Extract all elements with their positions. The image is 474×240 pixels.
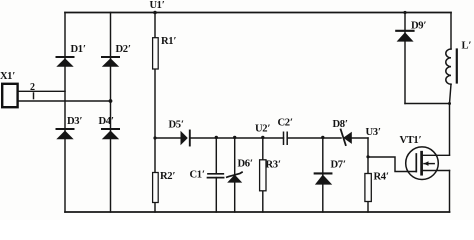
svg-text:R1 ′: R1 ′ — [161, 36, 176, 47]
mosfet body arrow shaft — [424, 163, 434, 165]
wire inductor bottom to drain node — [450, 84, 452, 155]
junction dot middle rail at R1/R2 — [153, 136, 156, 139]
junction dot C1 — [215, 136, 218, 139]
capacitor C2' plates — [284, 132, 288, 144]
resistor R3' body — [260, 160, 266, 191]
diode D1' bar — [57, 56, 74, 58]
mosfet source tap — [422, 170, 450, 172]
wire R1/R2 column — [154, 13, 156, 213]
junction dot D6 — [233, 136, 236, 139]
diode D4' triangle — [102, 131, 119, 140]
svg-text:U1 ′: U1 ′ — [150, 0, 165, 11]
capacitor C1' lower wire — [215, 178, 217, 212]
diode D5' triangle — [181, 131, 188, 145]
wire bridge column D2/D4 — [110, 13, 112, 213]
wire middle rail after D5 — [191, 137, 284, 139]
svg-text:D7 ′: D7 ′ — [331, 160, 346, 171]
wire middle rail after C2 — [287, 137, 341, 139]
diode D3' bar — [57, 128, 74, 130]
diode D3' triangle — [56, 131, 73, 140]
svg-text:U3 ′: U3 ′ — [366, 127, 381, 138]
wire source down to bottom bus — [449, 171, 451, 213]
diode D7' triangle — [315, 175, 332, 185]
junction dot D7 — [321, 136, 324, 139]
wire input bottom (X1 to D2/D4 node) — [18, 100, 111, 102]
resistor R4' column wire — [367, 157, 369, 212]
diode D9' bar — [396, 30, 413, 32]
wire input top (X1 to D1/D3 node) — [18, 90, 65, 92]
zener D6' column wire — [234, 138, 236, 212]
mosfet gate bar — [415, 154, 417, 172]
inductor L' coil — [446, 49, 451, 84]
mosfet arrow head — [424, 161, 429, 166]
resistor R2' body — [153, 173, 159, 203]
svg-text:D9 ′: D9 ′ — [411, 21, 426, 32]
svg-text:L ′: L ′ — [462, 41, 472, 52]
svg-text:C1 ′: C1 ′ — [190, 170, 205, 181]
resistor R3' column wire — [262, 138, 264, 212]
svg-text:VT1 ′: VT1 ′ — [400, 135, 422, 146]
wire D9 anode to drain spine — [405, 103, 450, 105]
inductor L' core bar — [456, 50, 458, 83]
wire gate run — [368, 157, 416, 172]
svg-text:U2 ′: U2 ′ — [255, 124, 270, 135]
zener D8' triangle (points left) — [343, 132, 352, 144]
diode D1' triangle — [56, 58, 73, 66]
svg-text:X1 ′: X1 ′ — [0, 71, 15, 82]
svg-text:R3 ′: R3 ′ — [266, 160, 281, 171]
junction dot D9 top — [403, 11, 406, 14]
junction dot drain node — [448, 102, 451, 105]
diode D7' column wire — [322, 138, 324, 212]
zener D6' slanted bar — [227, 172, 242, 177]
svg-text:D5 ′: D5 ′ — [169, 120, 184, 131]
diode D2' triangle — [102, 58, 119, 66]
svg-text:D3 ′: D3 ′ — [67, 116, 82, 127]
svg-text:D2 ′: D2 ′ — [116, 44, 131, 55]
svg-text:R4 ′: R4 ′ — [374, 172, 389, 183]
junction dot R3 / U2 node — [261, 136, 264, 139]
svg-text:2: 2 — [30, 82, 35, 93]
svg-text:R2 ′: R2 ′ — [160, 171, 175, 182]
resistor R1' body — [153, 38, 159, 69]
junction dot U1 node — [153, 11, 157, 15]
svg-text:C2 ′: C2 ′ — [278, 118, 293, 129]
capacitor C1' column wire — [215, 138, 217, 174]
resistor R4' body — [365, 174, 371, 202]
diode D7' bar — [315, 172, 332, 174]
connector X1' box — [2, 84, 17, 107]
mosfet channel bar — [420, 152, 423, 174]
diode D9' triangle — [397, 32, 414, 41]
wire D9 branch vertical — [404, 13, 406, 104]
capacitor C1' plates — [208, 174, 224, 178]
diode D4' bar — [102, 128, 119, 130]
mosfet drain tap — [422, 154, 450, 156]
diode D2' bar — [102, 56, 119, 58]
wire top bus U1 rail — [65, 12, 451, 14]
wire bottom bus — [65, 211, 450, 213]
mosfet VT1' circle — [406, 147, 439, 180]
diode D5' bar — [189, 131, 191, 146]
tick 2-wire mark — [33, 93, 35, 99]
zener D6' triangle — [227, 175, 242, 183]
svg-text:D6 ′: D6 ′ — [238, 159, 253, 170]
junction dot U3 node — [366, 155, 369, 158]
junction dot input bottom at D2/D4 — [109, 99, 113, 103]
wire right spine top (bus corner down to inductor) — [450, 13, 452, 50]
wire bridge column D1/D3 — [64, 13, 66, 213]
wire middle rail after D8 — [352, 137, 368, 139]
svg-text:D4 ′: D4 ′ — [99, 116, 114, 127]
wire U3 node down — [367, 138, 369, 157]
svg-text:D1 ′: D1 ′ — [71, 44, 86, 55]
wire middle rail — [155, 137, 181, 139]
zener D8' slanted bar — [341, 130, 346, 146]
svg-text:D8 ′: D8 ′ — [333, 119, 348, 130]
